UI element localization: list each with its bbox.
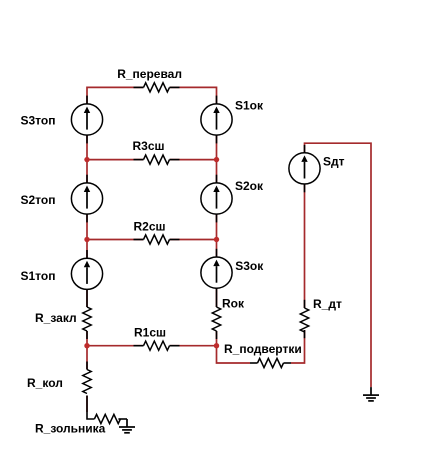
lead: S3ok top black stub xyxy=(216,249,218,257)
junction dot node R3ssh-right xyxy=(214,157,219,162)
lead: R_dt bottom black stub xyxy=(304,330,306,338)
wire: R_dt bottom to corner and left to R_podwertki xyxy=(291,330,305,363)
wire: top net, left rail corner to R_perewal left lead xyxy=(87,87,144,104)
wire: left rail R_zakl to R_kol xyxy=(86,331,88,370)
wire: middle rail S1ok to S2ok xyxy=(216,135,218,184)
lead: R_zolnika right lead to ground xyxy=(118,418,127,420)
lead: S3top bottom black stub xyxy=(86,135,88,143)
svg-text:R_кол: R_кол xyxy=(27,376,63,390)
lead: R_perewal right black stub xyxy=(170,86,180,88)
svg-text:S2ок: S2ок xyxy=(235,179,264,193)
svg-text:R_перевал: R_перевал xyxy=(117,67,182,81)
lead: S3ok bottom to Rok top xyxy=(216,288,218,307)
lead: R_kol bottom black stub and corner to R_zolnika xyxy=(87,396,94,420)
current source S2ok xyxy=(201,183,232,214)
lead: R1ssh right black stub xyxy=(170,345,180,347)
resistor R3ssh zigzag xyxy=(144,155,170,164)
current source S3ok xyxy=(201,257,232,288)
wire: R1ssh net right half xyxy=(170,345,217,347)
wire: Sdt bottom down to R_dt xyxy=(304,184,306,308)
svg-text:R2сш: R2сш xyxy=(134,220,166,234)
wire: top net, R_perewal right lead to middle rail corner xyxy=(170,87,217,104)
lead: R_dt top black stub xyxy=(304,300,306,308)
resistor Rok zigzag xyxy=(212,307,220,331)
junction dot node R2ssh-left xyxy=(84,237,89,242)
svg-text:S2топ: S2топ xyxy=(21,193,56,207)
lead: R_kol top black stub xyxy=(86,362,88,370)
wire: R1ssh horizontal net xyxy=(87,345,144,347)
lead: R_zakl bottom black stub xyxy=(86,331,88,339)
wire: left rail S3top to S2top xyxy=(86,135,88,184)
lead: S1ok top black stub xyxy=(216,96,218,104)
wire: R3ssh horizontal net xyxy=(87,159,144,161)
lead: S2ok top black stub xyxy=(216,175,218,183)
resistor R_zolnika zigzag xyxy=(94,414,120,423)
wire: middle rail S3ok to Rok xyxy=(216,288,218,307)
current source S1top xyxy=(71,258,102,289)
svg-text:R_закл: R_закл xyxy=(35,311,77,325)
lead: R3ssh left black stub xyxy=(134,159,144,161)
lead: R2ssh left black stub xyxy=(134,239,144,241)
lead: R2ssh right black stub xyxy=(170,239,180,241)
lead: R1ssh left black stub xyxy=(134,345,144,347)
svg-text:R1сш: R1сш xyxy=(134,325,166,339)
svg-text:Rок: Rок xyxy=(222,296,245,310)
resistor R2ssh zigzag xyxy=(144,235,170,244)
junction dot node R1ssh-right xyxy=(214,343,219,348)
svg-text:S3ок: S3ок xyxy=(235,259,264,273)
resistor R_kol zigzag xyxy=(83,370,91,394)
current source S3top xyxy=(71,104,102,135)
junction dot node R1ssh-left xyxy=(84,343,89,348)
wire: left rail S1top to R_zakl xyxy=(86,289,88,307)
svg-text:R_подвертки: R_подвертки xyxy=(224,342,302,356)
wire: left rail R_kol to bottom corner xyxy=(86,396,88,413)
svg-text:R_дт: R_дт xyxy=(313,297,342,311)
wire: Sdt top to far-right rail down to ground xyxy=(305,143,372,387)
svg-text:S3топ: S3топ xyxy=(21,114,56,128)
wire: R3ssh net right half xyxy=(170,159,217,161)
svg-text:S1топ: S1топ xyxy=(21,269,56,283)
resistor R_dt zigzag xyxy=(300,308,308,332)
lead: S1top bottom to R_zakl top xyxy=(86,289,88,307)
svg-text:Sдт: Sдт xyxy=(323,155,345,169)
wire: R2ssh net right half xyxy=(170,239,217,241)
lead: Sdt top black stub xyxy=(304,145,306,153)
lead: Rok bottom black stub xyxy=(216,331,218,339)
svg-text:S1ок: S1ок xyxy=(235,98,264,112)
wire: left rail S2top to S1top xyxy=(86,213,88,258)
lead: S2ok bottom black stub xyxy=(216,214,218,222)
lead: R3ssh right black stub xyxy=(170,159,180,161)
wire: R2ssh horizontal net xyxy=(87,239,144,241)
lead: S1ok bottom black stub xyxy=(216,135,218,143)
resistor R_zakl zigzag xyxy=(83,307,91,331)
lead: R_podwertki left black stub xyxy=(250,362,258,364)
ground right (far right rail) xyxy=(363,387,379,401)
resistor R1ssh zigzag xyxy=(144,341,170,350)
lead: S3top top black stub xyxy=(86,96,88,104)
current source Sdt xyxy=(289,153,320,184)
lead: Sdt bottom black stub xyxy=(304,184,306,192)
wire: middle rail Rok to junction and over to R_podwertki xyxy=(217,331,251,363)
resistor R_podwertki zigzag xyxy=(258,358,284,367)
svg-text:R3сш: R3сш xyxy=(133,139,165,153)
wire: middle rail S2ok to S3ok xyxy=(216,213,218,257)
current source S2top xyxy=(71,183,102,214)
lead: R_podwertki right black stub xyxy=(284,362,292,364)
junction dot node R3ssh-left xyxy=(84,157,89,162)
resistor R_perewal zigzag xyxy=(144,83,170,92)
lead: S1top top black stub xyxy=(86,250,88,258)
lead: S2top top black stub xyxy=(86,175,88,183)
ground left (after R_zolnika) xyxy=(119,419,135,433)
lead: R_perewal left black stub xyxy=(134,86,144,88)
junction dot node R2ssh-right xyxy=(214,237,219,242)
current source S1ok xyxy=(201,104,232,135)
svg-text:R_зольника: R_зольника xyxy=(35,422,106,436)
lead: S2top bottom black stub xyxy=(86,214,88,222)
